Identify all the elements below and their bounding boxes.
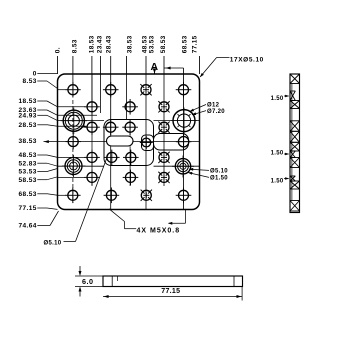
svg-text:38.53: 38.53 [19, 138, 37, 145]
svg-text:0: 0 [33, 71, 37, 78]
svg-text:0.: 0. [55, 47, 62, 53]
svg-text:68.53: 68.53 [19, 191, 37, 198]
svg-text:Ø1.50: Ø1.50 [210, 176, 228, 182]
svg-text:77.15: 77.15 [161, 288, 180, 295]
svg-text:24.93: 24.93 [19, 113, 37, 120]
svg-text:18.53: 18.53 [88, 35, 95, 53]
svg-text:48.53: 48.53 [19, 152, 37, 159]
svg-text:23.43: 23.43 [96, 35, 103, 53]
svg-text:53.53: 53.53 [19, 169, 37, 176]
svg-text:1.50: 1.50 [271, 179, 284, 185]
svg-text:28.43: 28.43 [105, 35, 112, 53]
svg-text:8.53: 8.53 [23, 78, 37, 85]
svg-text:77.15: 77.15 [19, 205, 37, 212]
svg-text:Ø12: Ø12 [207, 103, 220, 109]
svg-text:77.15: 77.15 [191, 35, 198, 53]
svg-text:17XØ5.10: 17XØ5.10 [230, 57, 264, 64]
svg-text:52.83: 52.83 [19, 160, 37, 167]
svg-text:1.50: 1.50 [271, 151, 284, 157]
svg-text:6.0: 6.0 [82, 277, 94, 286]
svg-text:74.64: 74.64 [19, 223, 37, 230]
svg-text:68.53: 68.53 [181, 35, 188, 53]
svg-text:Ø7.20: Ø7.20 [207, 109, 225, 115]
svg-text:48.53: 48.53 [141, 35, 148, 53]
svg-text:58.53: 58.53 [160, 35, 167, 53]
svg-text:1.50: 1.50 [271, 96, 284, 102]
svg-text:Ø5.10: Ø5.10 [44, 240, 62, 246]
svg-text:18.53: 18.53 [19, 98, 37, 105]
svg-text:8.53: 8.53 [71, 39, 78, 53]
svg-text:58.53: 58.53 [19, 177, 37, 184]
svg-text:38.53: 38.53 [126, 35, 133, 53]
svg-text:28.53: 28.53 [19, 122, 37, 129]
svg-text:53.53: 53.53 [148, 35, 155, 53]
svg-text:4X M5X0.8: 4X M5X0.8 [137, 227, 181, 234]
svg-text:Ø5.10: Ø5.10 [210, 169, 228, 175]
